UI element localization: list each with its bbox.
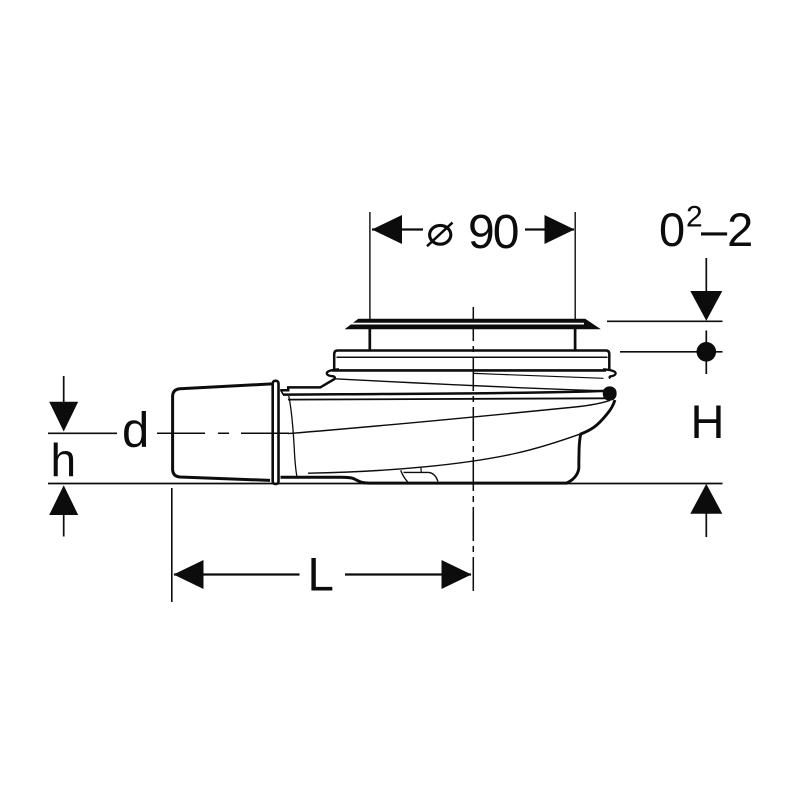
gasket top line	[332, 369, 606, 372]
ring groove line	[337, 356, 608, 358]
funnel back edge thin line	[474, 373, 604, 378]
inlet shoulder profile	[280, 379, 335, 391]
pipe axis dash-dot line	[157, 432, 289, 434]
grate plate inner white line	[351, 323, 584, 325]
outlet weir arc 1	[401, 470, 408, 482]
dimension o90: right arrow	[545, 215, 575, 244]
dimension h: lower tail	[63, 515, 65, 537]
dimension L: left extension line	[171, 488, 173, 602]
svg-text:H: H	[691, 395, 725, 448]
floor level line through dot	[620, 351, 723, 353]
dimension h: down arrow	[49, 402, 78, 432]
rim thick line	[283, 391, 606, 395]
rim lower line	[288, 398, 607, 399]
socket interior back curve	[289, 396, 297, 477]
interior lower curve B	[308, 434, 581, 473]
baseline (floor reference line)	[48, 483, 723, 485]
dimension h: up arrow	[49, 485, 78, 515]
dimension d: short line left of label	[48, 432, 117, 434]
outlet pipe body	[173, 384, 272, 481]
gasket right lip	[603, 369, 616, 378]
label diameter 90	[427, 223, 453, 247]
center line vertical	[472, 307, 474, 594]
svg-text:d: d	[122, 403, 149, 457]
collar right side	[574, 329, 577, 351]
floor level tick vertical	[705, 331, 707, 375]
outlet weir arc 2	[429, 472, 438, 481]
interior upper curve A	[288, 400, 610, 433]
svg-text:–2: –2	[701, 203, 753, 256]
pipe socket ring	[273, 381, 279, 484]
dimension L: left arrow	[174, 560, 204, 589]
collar left side	[368, 329, 371, 351]
rim right end knob	[603, 386, 617, 400]
dimension 0-2: down arrow tail	[705, 258, 707, 292]
bowl right wall	[567, 400, 615, 483]
floor level reference dot	[697, 342, 717, 362]
dimension o90: line left segment	[372, 228, 423, 230]
dimension H: up arrow tail	[705, 514, 707, 538]
dimension h: upper tail	[63, 376, 65, 403]
dimension L: right arrow	[442, 560, 472, 589]
svg-text:90: 90	[468, 206, 518, 259]
dimension o90: right extension line	[574, 212, 576, 319]
outlet weir ledge	[404, 471, 430, 473]
grate top level line	[607, 320, 723, 322]
gasket left lip	[327, 369, 339, 379]
dimension H: up arrow	[690, 484, 722, 514]
dimension L: line left segment	[174, 573, 300, 575]
outlet weir notch	[420, 467, 423, 473]
bowl bottom	[281, 477, 568, 483]
upper ring	[334, 351, 609, 370]
dimension o90: left extension line	[369, 212, 371, 319]
funnel top edge diagonal	[335, 379, 607, 391]
dimension L: line right segment	[345, 573, 471, 575]
dimension 0-2: down arrow	[690, 291, 722, 321]
svg-text:h: h	[51, 434, 77, 486]
svg-text:0: 0	[659, 203, 685, 256]
svg-text:L: L	[308, 549, 334, 602]
dimension o90: line right segment	[525, 228, 574, 230]
grate plate (top bar)	[345, 319, 601, 330]
rim left jog	[281, 391, 283, 395]
dimension o90: left arrow	[372, 215, 402, 244]
